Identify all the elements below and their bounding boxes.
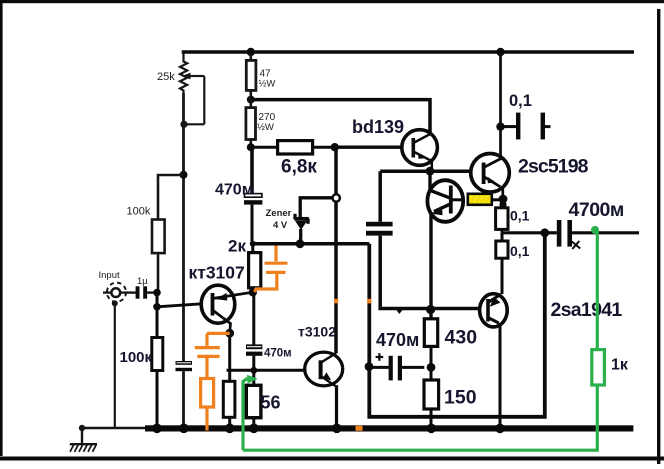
- junction dots on ground rail: [152, 424, 505, 434]
- resistor 47 1/2W: [250, 54, 253, 61]
- capacitor 470м (upper): [250, 147, 254, 194]
- svg-text:0,1: 0,1: [509, 92, 532, 110]
- svg-text:2sa1941: 2sa1941: [551, 299, 623, 321]
- svg-text:4 V: 4 V: [273, 220, 288, 231]
- resistor 0,1 (lower emitter): [501, 233, 504, 241]
- capacitor 470м (bottom, feedback): [369, 366, 389, 369]
- wire: 47/270 node to bd139 collector: [251, 100, 430, 133]
- junction: 6,8k right / bd139 base node: [331, 143, 339, 151]
- capacitor (bias decoupling, unlabeled): [176, 361, 193, 365]
- resistor 100к (lower): [152, 338, 163, 371]
- svg-text:1к: 1к: [611, 357, 629, 374]
- wire: 100k to input node: [157, 253, 160, 292]
- resistor 2к: [251, 244, 254, 253]
- junction: 2k bottom / kt3107 emitter: [249, 288, 257, 296]
- capacitor 4700м (output): [545, 231, 557, 234]
- svg-text:bd139: bd139: [352, 117, 404, 137]
- wire: base line of т3102: [227, 369, 307, 372]
- resistor 150: [430, 367, 433, 380]
- wire: pot bottom down left bias line: [182, 93, 185, 427]
- svg-text:0,1: 0,1: [510, 243, 530, 259]
- svg-text:2к: 2к: [228, 237, 246, 256]
- V+ power rail: [182, 50, 634, 54]
- wire: node to bd139 base: [335, 145, 402, 148]
- resistor 6,8к: [251, 146, 278, 149]
- junction: 2sc5198 emitter node: [499, 195, 508, 204]
- capacitor 0,1 (top): [501, 125, 517, 128]
- wire: VAS collector vertical: [334, 147, 338, 353]
- svg-text:470м: 470м: [376, 330, 419, 350]
- junction on rail at 47 resistor: [247, 48, 255, 56]
- capacitor (orange, parallel with 2к): [255, 246, 288, 293]
- junction on rail at 2sc5198 collector: [496, 48, 504, 56]
- junction: 270 bottom node: [247, 143, 255, 151]
- svg-text:½W: ½W: [257, 122, 274, 133]
- svg-text:4700м: 4700м: [569, 199, 624, 221]
- resistor 430: [424, 319, 437, 347]
- junction: kt3107 collector node: [225, 329, 234, 338]
- wire: bias node to 100k upper: [158, 175, 184, 220]
- svg-text:1µ: 1µ: [137, 276, 148, 287]
- resistor 270 1/2W: [250, 90, 253, 107]
- svg-text:100к: 100к: [120, 349, 153, 366]
- svg-text:100k: 100k: [127, 206, 151, 218]
- junction: output node: [540, 228, 549, 237]
- svg-text:25k: 25k: [157, 71, 175, 83]
- wire: feedback loop to output: [369, 233, 545, 417]
- node ring: zener tap: [333, 194, 340, 201]
- junction: 2sc5198 collector tap: [496, 122, 504, 130]
- resistor 56: [252, 370, 255, 385]
- svg-text:470м: 470м: [215, 181, 254, 198]
- wire: input node vertical: [156, 293, 159, 428]
- svg-text:½W: ½W: [259, 79, 276, 90]
- resistor (unlabeled, kt3107 collector): [228, 333, 231, 381]
- wire: output node: [502, 231, 545, 234]
- svg-text:кт3107: кт3107: [189, 263, 245, 283]
- svg-text:150: 150: [444, 387, 477, 409]
- svg-text:56: 56: [261, 393, 281, 413]
- svg-text:т3102: т3102: [298, 324, 336, 340]
- wire: orange mark on ground rail: [356, 426, 363, 431]
- resistor (yellow highlighted): [468, 194, 492, 205]
- junction: input node: [153, 289, 161, 297]
- wire: base of kt3107: [157, 304, 202, 307]
- transistor кт3107: [201, 285, 235, 323]
- zener diode Zener 4V: [294, 198, 332, 240]
- ground rail: [82, 427, 148, 429]
- junction: zener anode on feedback node: [296, 239, 305, 248]
- svg-text:430: 430: [445, 327, 478, 349]
- capacitor 1µ: [125, 291, 136, 293]
- svg-text:2sc5198: 2sc5198: [518, 155, 589, 177]
- capacitor (big, unlabeled bootstrap): [378, 171, 382, 222]
- wire: big cap to 2sa1941 base: [380, 236, 480, 309]
- wire: driver rail y171: [380, 169, 471, 173]
- transistor (driver, unlabeled): [427, 180, 463, 222]
- junction: 47/270 node: [247, 96, 255, 104]
- wire: driver base lead: [451, 198, 464, 201]
- junction: base branch: [153, 303, 161, 311]
- resistor 0,1 (upper emitter): [502, 200, 505, 208]
- junction: bd139 emitter node: [426, 167, 435, 176]
- junction: bias node: [180, 171, 188, 179]
- potentiometer 25k: [180, 52, 204, 124]
- svg-text:0,1: 0,1: [510, 208, 530, 224]
- svg-text:Input: Input: [99, 270, 120, 281]
- wire: feedback node line: [253, 242, 369, 246]
- resistor 100k (upper): [152, 220, 165, 254]
- svg-text:470м: 470м: [264, 348, 292, 360]
- svg-text:Zener: Zener: [266, 208, 292, 219]
- junction: 430/150 node: [427, 363, 436, 372]
- input jack: [103, 283, 127, 302]
- capacitor + resistor (orange RC to ground): [195, 333, 230, 430]
- capacitor 470м (small, at 56): [252, 292, 255, 345]
- wire: jack sleeve to ground: [112, 300, 118, 306]
- ground symbol: [79, 425, 85, 431]
- junction: 430 top / base node: [426, 305, 435, 314]
- junction: 470 cap bottom / 56 top: [250, 367, 257, 374]
- wire/resistor 1к green network: [243, 231, 604, 451]
- svg-text:6,8к: 6,8к: [281, 156, 317, 177]
